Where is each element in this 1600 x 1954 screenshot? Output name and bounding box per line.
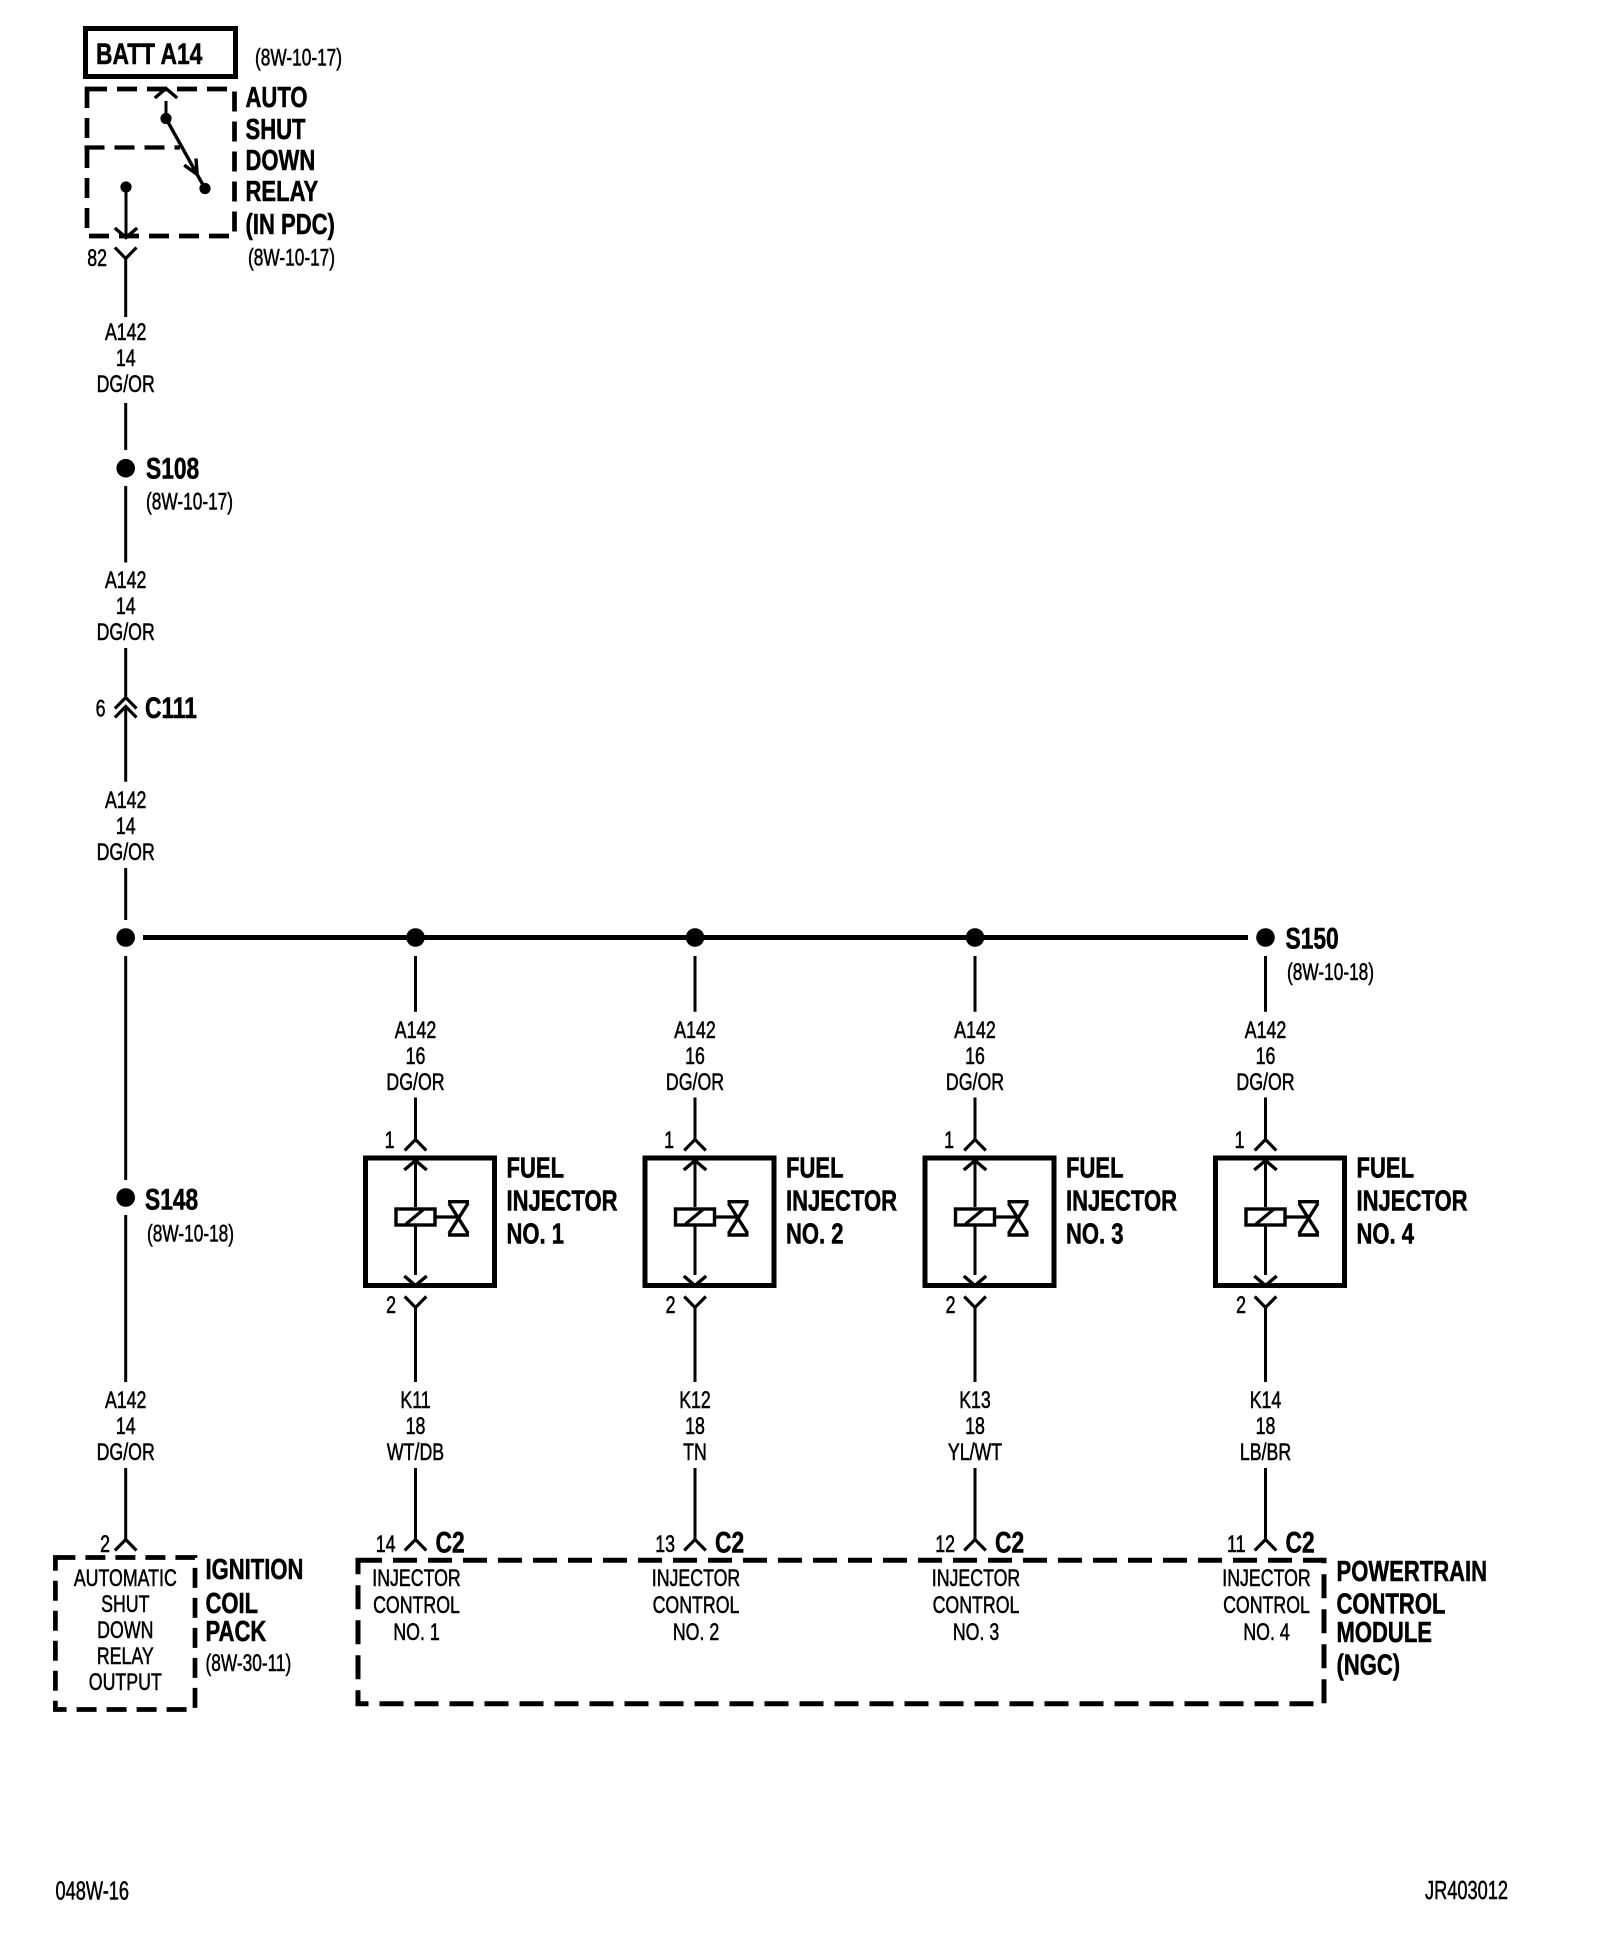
svg-text:IGNITION: IGNITION <box>206 1554 304 1586</box>
svg-text:NO. 3: NO. 3 <box>1066 1219 1124 1251</box>
svg-text:FUEL: FUEL <box>1066 1153 1124 1185</box>
svg-text:S150: S150 <box>1286 921 1339 955</box>
svg-text:6: 6 <box>96 696 106 722</box>
svg-text:1: 1 <box>1235 1128 1245 1154</box>
svg-text:INJECTOR: INJECTOR <box>652 1566 740 1592</box>
svg-text:C2: C2 <box>715 1525 744 1559</box>
svg-text:SHUT: SHUT <box>101 1592 149 1618</box>
svg-text:MODULE: MODULE <box>1337 1617 1432 1649</box>
svg-text:A142: A142 <box>105 568 146 594</box>
svg-text:C2: C2 <box>1286 1525 1315 1559</box>
svg-text:NO. 1: NO. 1 <box>393 1620 439 1646</box>
svg-text:K11: K11 <box>400 1388 430 1414</box>
svg-text:INJECTOR: INJECTOR <box>372 1566 460 1592</box>
svg-text:18: 18 <box>685 1414 705 1440</box>
svg-text:DOWN: DOWN <box>246 145 316 177</box>
svg-text:K13: K13 <box>959 1388 991 1414</box>
svg-text:WT/DB: WT/DB <box>387 1440 444 1466</box>
svg-text:13: 13 <box>655 1532 675 1558</box>
svg-text:LB/BR: LB/BR <box>1240 1440 1291 1466</box>
svg-text:A142: A142 <box>105 788 146 814</box>
svg-text:DG/OR: DG/OR <box>946 1070 1004 1096</box>
svg-text:K12: K12 <box>679 1388 711 1414</box>
svg-text:12: 12 <box>935 1532 955 1558</box>
svg-text:RELAY: RELAY <box>97 1644 154 1670</box>
svg-text:(8W-30-11): (8W-30-11) <box>206 1650 292 1676</box>
svg-text:2: 2 <box>1236 1293 1246 1319</box>
svg-text:2: 2 <box>386 1293 396 1319</box>
svg-text:NO. 2: NO. 2 <box>786 1219 844 1251</box>
svg-text:FUEL: FUEL <box>1357 1153 1415 1185</box>
svg-text:1: 1 <box>664 1128 674 1154</box>
svg-text:82: 82 <box>87 246 107 272</box>
svg-text:A142: A142 <box>1245 1018 1286 1044</box>
svg-text:AUTO: AUTO <box>246 82 308 114</box>
svg-text:(8W-10-18): (8W-10-18) <box>147 1221 234 1247</box>
svg-text:CONTROL: CONTROL <box>373 1593 460 1619</box>
svg-text:14: 14 <box>116 1414 136 1440</box>
svg-text:BATT A14: BATT A14 <box>96 37 202 71</box>
svg-text:CONTROL: CONTROL <box>933 1593 1020 1619</box>
svg-text:INJECTOR: INJECTOR <box>786 1186 897 1218</box>
svg-text:JR403012: JR403012 <box>1425 1876 1508 1905</box>
svg-text:A142: A142 <box>395 1018 436 1044</box>
svg-text:RELAY: RELAY <box>246 176 319 208</box>
svg-text:A142: A142 <box>954 1018 995 1044</box>
svg-text:PACK: PACK <box>206 1616 267 1648</box>
svg-text:2: 2 <box>666 1293 676 1319</box>
svg-text:OUTPUT: OUTPUT <box>89 1670 162 1696</box>
svg-text:COIL: COIL <box>206 1588 259 1620</box>
svg-text:INJECTOR: INJECTOR <box>1222 1566 1310 1592</box>
svg-text:2: 2 <box>946 1293 956 1319</box>
svg-text:16: 16 <box>406 1044 426 1070</box>
svg-text:TN: TN <box>683 1440 707 1466</box>
svg-text:DG/OR: DG/OR <box>97 840 155 866</box>
svg-text:CONTROL: CONTROL <box>1223 1593 1310 1619</box>
svg-text:DOWN: DOWN <box>97 1618 153 1644</box>
svg-text:18: 18 <box>1256 1414 1276 1440</box>
svg-text:SHUT: SHUT <box>246 114 306 146</box>
svg-text:S148: S148 <box>145 1182 198 1216</box>
svg-text:DG/OR: DG/OR <box>97 620 155 646</box>
svg-text:INJECTOR: INJECTOR <box>1357 1186 1468 1218</box>
svg-text:(8W-10-17): (8W-10-17) <box>248 245 335 271</box>
svg-text:18: 18 <box>965 1414 985 1440</box>
svg-text:(8W-10-17): (8W-10-17) <box>146 489 233 515</box>
svg-text:A142: A142 <box>674 1018 715 1044</box>
svg-text:DG/OR: DG/OR <box>97 372 155 398</box>
svg-text:NO. 3: NO. 3 <box>953 1620 999 1646</box>
svg-text:FUEL: FUEL <box>786 1153 844 1185</box>
svg-text:FUEL: FUEL <box>507 1153 565 1185</box>
svg-text:CONTROL: CONTROL <box>1337 1589 1446 1621</box>
svg-text:14: 14 <box>116 346 136 372</box>
svg-text:14: 14 <box>116 594 136 620</box>
svg-text:A142: A142 <box>105 320 146 346</box>
svg-text:DG/OR: DG/OR <box>1236 1070 1294 1096</box>
svg-text:NO. 1: NO. 1 <box>507 1219 565 1251</box>
svg-text:14: 14 <box>116 814 136 840</box>
svg-text:C111: C111 <box>145 691 197 725</box>
svg-text:INJECTOR: INJECTOR <box>932 1566 1020 1592</box>
svg-text:14: 14 <box>376 1532 396 1558</box>
svg-text:048W-16: 048W-16 <box>56 1876 130 1905</box>
svg-text:S108: S108 <box>146 451 199 485</box>
svg-text:16: 16 <box>965 1044 985 1070</box>
svg-text:NO. 4: NO. 4 <box>1357 1219 1415 1251</box>
svg-text:POWERTRAIN: POWERTRAIN <box>1337 1556 1488 1588</box>
svg-text:C2: C2 <box>436 1525 465 1559</box>
svg-text:DG/OR: DG/OR <box>386 1070 444 1096</box>
svg-text:(NGC): (NGC) <box>1337 1650 1401 1682</box>
svg-text:DG/OR: DG/OR <box>666 1070 724 1096</box>
svg-text:CONTROL: CONTROL <box>653 1593 740 1619</box>
svg-text:YL/WT: YL/WT <box>948 1440 1002 1466</box>
svg-text:A142: A142 <box>105 1388 146 1414</box>
svg-text:C2: C2 <box>995 1525 1024 1559</box>
svg-text:K14: K14 <box>1250 1388 1282 1414</box>
svg-text:NO. 2: NO. 2 <box>673 1620 719 1646</box>
svg-text:11: 11 <box>1227 1532 1245 1558</box>
svg-text:AUTOMATIC: AUTOMATIC <box>74 1566 177 1592</box>
svg-text:(8W-10-17): (8W-10-17) <box>255 45 342 71</box>
svg-text:(8W-10-18): (8W-10-18) <box>1287 959 1374 985</box>
svg-text:(IN PDC): (IN PDC) <box>246 209 335 241</box>
svg-text:1: 1 <box>944 1128 954 1154</box>
svg-text:16: 16 <box>685 1044 705 1070</box>
svg-text:DG/OR: DG/OR <box>97 1440 155 1466</box>
svg-text:NO. 4: NO. 4 <box>1243 1620 1290 1646</box>
svg-text:18: 18 <box>406 1414 426 1440</box>
svg-text:16: 16 <box>1256 1044 1276 1070</box>
svg-text:INJECTOR: INJECTOR <box>1066 1186 1177 1218</box>
svg-text:2: 2 <box>100 1532 110 1558</box>
svg-text:INJECTOR: INJECTOR <box>507 1186 618 1218</box>
svg-text:1: 1 <box>385 1128 395 1154</box>
